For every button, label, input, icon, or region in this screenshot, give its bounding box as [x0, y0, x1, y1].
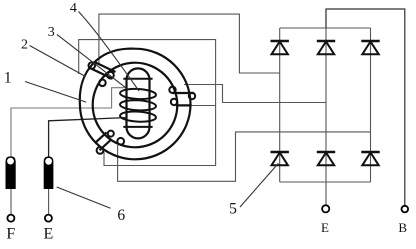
leader 5 — [240, 163, 278, 207]
diode D6 bottom-right — [361, 152, 379, 165]
wire E brush to rotor winding — [49, 118, 126, 157]
wire bottom bus to E terminal — [325, 182, 327, 204]
svg-text:1: 1 — [4, 69, 12, 86]
rotor pole bar bottom — [123, 126, 152, 128]
rotor pole bar top — [123, 78, 152, 80]
diode D4 bottom-left — [271, 152, 289, 165]
leader 4 — [79, 12, 140, 92]
svg-text:2: 2 — [21, 37, 28, 52]
wire F brush to F terminal — [10, 189, 12, 214]
wire phase1 route from top-left coil to left bridge leg — [99, 14, 280, 73]
stator outer ring — [80, 49, 191, 160]
bridge right leg — [370, 28, 372, 182]
leader 3 — [57, 34, 125, 87]
stator coil top-left — [89, 62, 116, 86]
wire neutral route from top-left coil around to bottom-left coil — [79, 40, 216, 166]
diode D3 top-right — [361, 41, 379, 54]
terminal E left — [45, 215, 52, 222]
diode D2 top-middle — [317, 41, 335, 54]
diode D5 bottom-middle — [317, 152, 335, 165]
svg-text:F: F — [6, 225, 15, 242]
stator coil right — [169, 87, 195, 106]
stator inner ring — [93, 63, 178, 148]
rotor field winding turn 3 — [120, 111, 156, 123]
svg-text:E: E — [44, 225, 54, 242]
wire E brush to E terminal — [48, 189, 50, 214]
svg-text:3: 3 — [48, 25, 55, 40]
bridge top bus — [280, 27, 371, 29]
bridge left leg — [279, 28, 281, 182]
terminal B — [402, 206, 409, 213]
leader 1 — [25, 82, 86, 103]
terminal F — [7, 215, 14, 222]
leader 2 — [30, 46, 86, 77]
wire right coil to neutral — [192, 105, 216, 107]
wire F brush to rotor winding — [11, 88, 127, 157]
bridge middle leg — [325, 9, 327, 182]
brush F (left) — [6, 156, 16, 189]
terminal E bridge — [322, 205, 329, 212]
bridge bottom bus — [280, 181, 371, 183]
svg-text:E: E — [321, 220, 329, 235]
wire phase3 route from bottom-left coil to right bridge leg — [118, 132, 371, 181]
rotor core capsule — [127, 68, 150, 138]
wire phase2 route from right coil to middle bridge leg — [184, 85, 326, 103]
leader 6 — [57, 187, 111, 208]
svg-text:4: 4 — [70, 1, 77, 16]
diode D1 top-left — [271, 41, 289, 54]
stator coil bottom-left — [96, 131, 124, 154]
svg-text:5: 5 — [229, 201, 237, 218]
rotor field winding turn 1 — [120, 88, 156, 100]
brush E (right) — [44, 156, 54, 189]
svg-text:B: B — [398, 220, 407, 235]
wire top bus to B terminal — [326, 9, 405, 205]
rotor field winding turn 2 — [120, 99, 156, 111]
svg-text:6: 6 — [117, 207, 125, 224]
